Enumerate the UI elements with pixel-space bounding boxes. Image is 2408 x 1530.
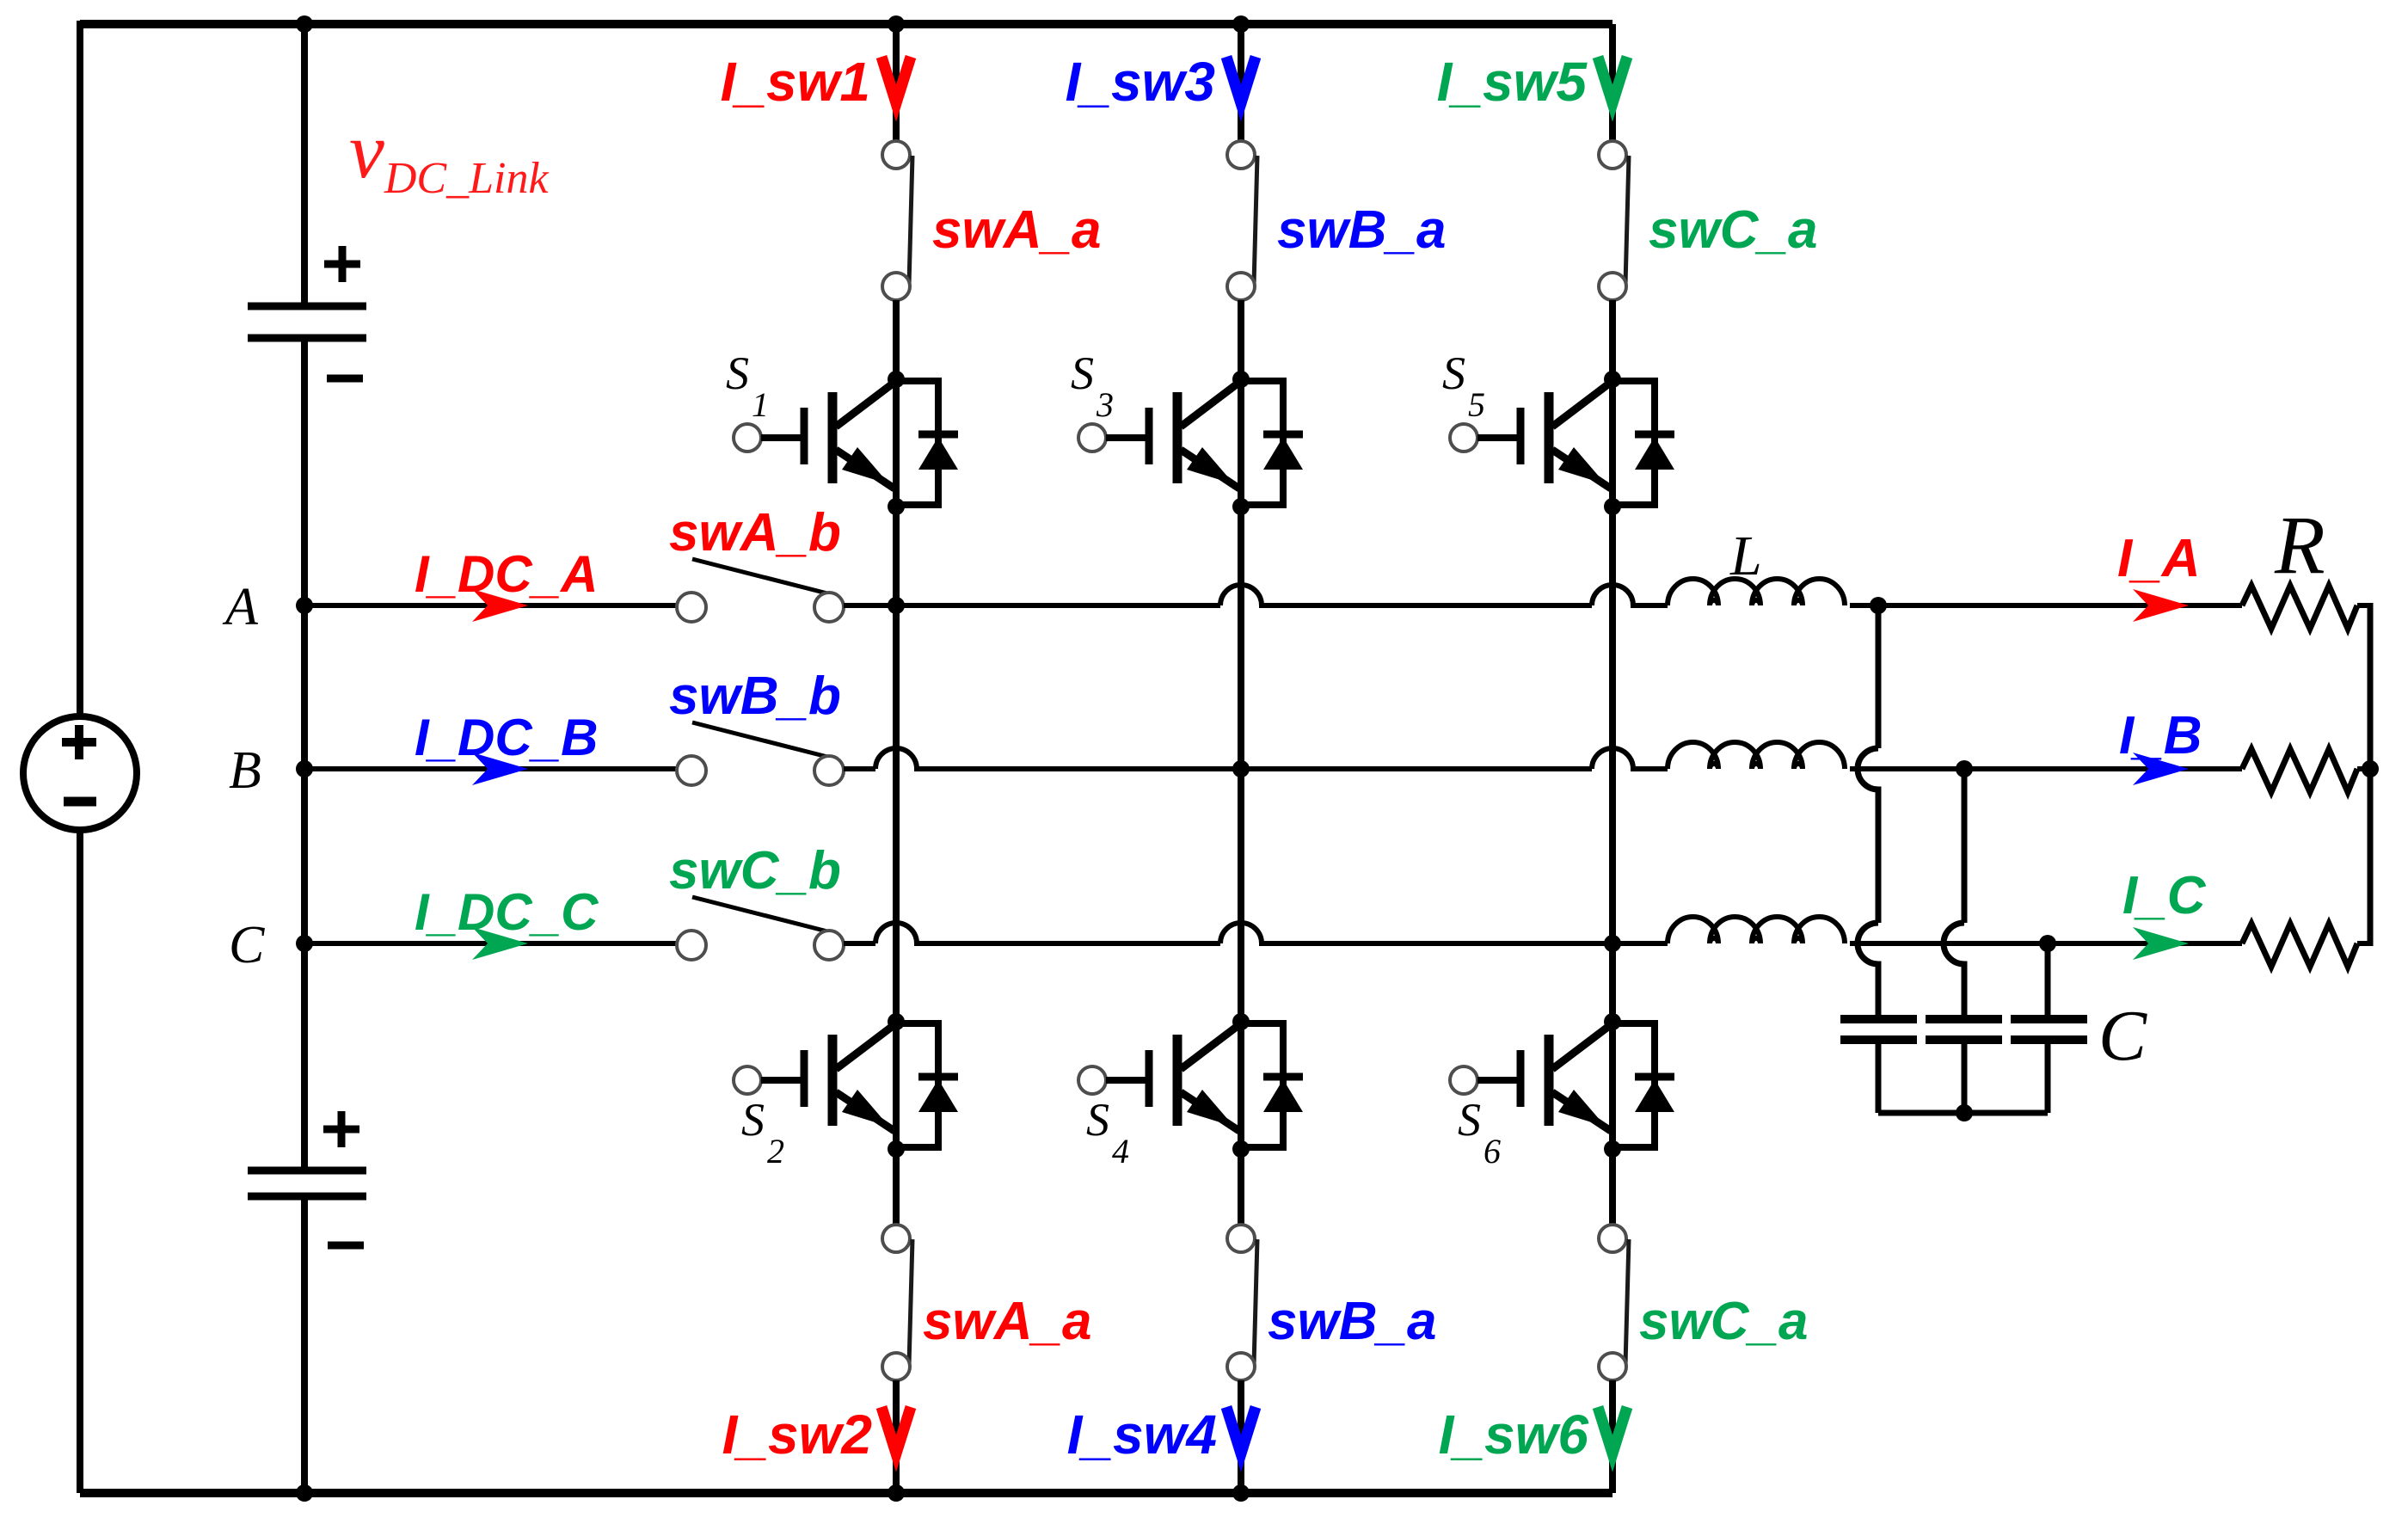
svg-text:swC_b: swC_b [669,841,841,900]
current arrow I_DC_C [472,927,528,960]
switch swC_b terminal 2 [814,931,844,960]
svg-text:swB_b: swB_b [669,667,841,726]
switch swB_a (top) terminal 2 [1227,273,1255,300]
current arrow I_sw5 [1598,57,1627,103]
svg-text:S: S [726,347,749,399]
switch swA_a (bottom) terminal 2 [882,1353,910,1380]
resistor R (phase C) [2242,924,2357,967]
wire phase B across leg1 (hop) to leg2 [844,748,1241,769]
svg-text:swC_a: swC_a [1649,200,1817,260]
wire phase A to leg1 [844,603,896,608]
svg-text:I_sw4: I_sw4 [1067,1404,1217,1465]
wire phase B inductor to tap [1850,766,1964,771]
svg-text:L: L [1729,525,1762,587]
node right bus phase B [2362,760,2379,777]
svg-text:R: R [2274,499,2325,591]
switch swA_b terminal 2 [814,593,844,622]
wire leg3 lower IGBT to switch [1609,1149,1616,1225]
wire DC-link bus upper segment [301,21,308,303]
node C on DC-link bus [296,935,313,952]
capacitor C (phase A) [1840,1015,1917,1023]
resistor R (phase A) [2242,586,2357,629]
wire cap branch A (hops over rows B and C) [1858,605,1878,1019]
wire leg3 switch to IGBT [1609,300,1616,379]
switch swC_a (top) terminal 1 [1599,141,1626,169]
voltage source V1 [23,716,137,830]
wire phase A inductor to tap [1850,603,1878,608]
node capacitor tie [1956,1104,1973,1121]
switch swA_a (top) terminal 1 [882,141,910,169]
wire resistor B to right bus [2357,766,2370,771]
wire cap branch B (hops over row C) [1944,769,1964,1019]
current arrow I_sw4 [1226,1407,1256,1453]
wire phase C inductor to tap [1850,941,2048,946]
switch swB_a (bottom) blade [1254,1239,1257,1365]
node top bus leg3 [0,0,1,1]
resistor R (phase B) [2242,749,2357,792]
svg-text:3: 3 [1096,385,1114,424]
wire leg2 IGBT to node B [1238,507,1244,769]
svg-text:swB_a: swB_a [1277,200,1446,260]
svg-text:C: C [229,916,265,974]
current arrow I_A [2133,589,2189,622]
wire leg2 from top bus to switch [1238,24,1244,141]
wire phase C from bus to swC_b [304,941,677,946]
node phase C filter tap [2039,935,2056,952]
svg-text:6: 6 [1483,1132,1501,1171]
capacitor C (phase C) [2011,1015,2087,1023]
wire phase C tap to resistor [2048,941,2242,946]
switch swB_a (bottom) terminal 2 [1227,1353,1255,1380]
svg-text:S: S [741,1094,765,1146]
switch swC_b terminal 1 [677,931,706,960]
wire bottom DC bus [80,1489,1612,1497]
wire cap B to tie bus [1962,1040,1968,1113]
svg-text:I_DC_B: I_DC_B [415,709,598,766]
svg-text:swA_a: swA_a [932,200,1101,260]
wire leg2 node B to lower IGBT [1238,769,1244,1022]
wire cap A to tie bus [1876,1040,1882,1113]
node bottom bus leg1 [888,1484,905,1502]
svg-text:I_sw5: I_sw5 [1437,51,1588,113]
wire resistor A to right bus [2357,603,2370,608]
capacitor C_dc1 (upper DC-link cap) [248,303,366,310]
svg-text:2: 2 [767,1132,784,1171]
switch swC_a (bottom) blade [1625,1239,1629,1365]
wire leg1 from top bus to switch [893,24,900,141]
svg-text:I_sw3: I_sw3 [1066,51,1215,113]
switch swB_a (top) blade [1254,156,1257,285]
switch swB_b blade [692,722,831,758]
transistor S4 (IGBT with freewheel diode D4) [1078,1013,1303,1158]
node phase B filter tap [1956,760,1973,777]
switch swA_a (bottom) blade [909,1239,912,1365]
svg-text:I_A: I_A [2117,529,2200,588]
wire capacitor tie bus [1878,1110,2048,1116]
svg-text:S: S [1442,347,1465,399]
current arrow I_DC_A [472,589,528,622]
switch swB_b terminal 1 [677,756,706,785]
switch swB_b terminal 2 [814,756,844,785]
wire top DC bus [80,20,1612,28]
current arrow I_sw1 [881,57,911,103]
svg-text:S: S [1458,1094,1481,1146]
wire DC-link bus middle segment [301,341,308,1167]
node top bus leg1 [888,15,905,33]
wire leg2 switch to bottom bus [1238,1380,1244,1493]
inductor L (phase C) [1668,917,1845,943]
wire leg2 switch to IGBT [1238,300,1244,379]
node A on DC-link bus [296,597,313,614]
transistor S2 (IGBT with freewheel diode D2) [734,1013,958,1158]
transistor S3 (IGBT with freewheel diode D3) [1078,371,1303,515]
node leg3 phase C [1604,935,1621,952]
switch swA_b blade [692,559,831,594]
svg-text:I_sw6: I_sw6 [1439,1404,1589,1465]
wire left bus upper segment [77,21,83,716]
wire phase C across leg1 and leg2 (hops) to leg3 [844,923,1612,943]
wire leg2 lower IGBT to switch [1238,1149,1244,1225]
wire phase B tap to resistor [1964,766,2242,771]
switch swA_a (top) blade [909,156,912,285]
svg-text:I_sw1: I_sw1 [721,51,870,113]
svg-text:S: S [1086,1094,1109,1146]
switch swA_a (bottom) terminal 1 [882,1225,910,1252]
wire cap C to tie bus [2045,1040,2051,1113]
wire resistor C to right bus [2357,941,2370,946]
node phase A filter tap [1870,597,1887,614]
svg-text:I_DC_A: I_DC_A [415,545,598,603]
transistor S5 (IGBT with freewheel diode D5) [1450,371,1674,515]
wire leg1 IGBT to node A [893,507,900,605]
wire leg3 switch to bottom bus [1609,1380,1616,1493]
wire leg3 IGBT to node C [1609,507,1616,943]
capacitor C_dc2 (lower DC-link cap) [248,1167,366,1175]
wire phase B leg2 to inductor (hops over leg3) [1241,748,1668,769]
svg-text:swA_a: swA_a [923,1292,1091,1351]
svg-text:swB_a: swB_a [1268,1292,1436,1351]
svg-text:I_DC_C: I_DC_C [415,883,599,941]
switch swA_b terminal 1 [677,593,706,622]
wire leg3 node C to lower IGBT [1609,943,1616,1022]
wire leg1 switch to IGBT [893,300,900,379]
wire cap branch C [2045,943,2051,1019]
node bottom bus / DC-link bus [296,1484,313,1502]
current arrow I_sw2 [881,1407,911,1453]
svg-text:5: 5 [1468,385,1485,424]
transistor S6 (IGBT with freewheel diode D6) [1450,1013,1674,1158]
switch swC_a (bottom) terminal 2 [1599,1353,1626,1380]
wire phase C leg3 to inductor [1612,941,1668,946]
node bottom bus leg2 [1232,1484,1250,1502]
svg-text:swA_b: swA_b [669,503,841,562]
svg-text:S: S [1071,347,1094,399]
wire DC-link bus lower segment [301,1200,308,1493]
svg-text:I_C: I_C [2122,866,2207,925]
svg-text:I_sw2: I_sw2 [722,1404,872,1465]
current arrow I_sw3 [1226,57,1256,103]
node B on DC-link bus [296,760,313,777]
wire phase A tap to resistor [1878,603,2242,608]
current arrow I_B [2133,753,2189,785]
wire leg3 from top bus to switch [1609,24,1616,141]
node top bus / DC-link bus [296,15,313,33]
wire leg1 lower IGBT to switch [893,1149,900,1225]
wire left bus lower segment [77,830,83,1493]
node leg2 phase B [1232,760,1250,777]
wire phase A from bus to swA_b [304,603,677,608]
capacitor C (phase B) [1926,1015,2002,1023]
svg-text:1: 1 [752,385,769,424]
svg-text:B: B [229,741,261,800]
current arrow I_sw6 [1598,1407,1627,1453]
svg-text:A: A [222,578,259,636]
svg-text:4: 4 [1112,1132,1129,1171]
svg-text:I_B: I_B [2119,706,2202,765]
inductor L (phase A) [1668,579,1845,605]
wire phase B from bus to swB_b [304,766,677,771]
current arrow I_DC_B [472,753,528,785]
wire right load bus [2368,603,2374,946]
switch swA_a (top) terminal 2 [882,273,910,300]
switch swC_a (bottom) terminal 1 [1599,1225,1626,1252]
inductor L (phase B) [1668,742,1845,769]
wire leg1 switch to bottom bus [893,1380,900,1493]
current arrow I_C [2133,927,2189,960]
wire phase A across legs (hops over leg2 and leg3) [896,585,1668,605]
switch swB_a (top) terminal 1 [1227,141,1255,169]
node leg1 phase A [888,597,905,614]
switch swC_a (top) terminal 2 [1599,273,1626,300]
node top bus leg2 [1232,15,1250,33]
transistor S1 (IGBT with freewheel diode D1) [734,371,958,515]
svg-text:swC_a: swC_a [1639,1292,1808,1351]
svg-text:C: C [2098,996,2147,1076]
switch swC_a (top) blade [1625,156,1629,285]
switch swB_a (bottom) terminal 1 [1227,1225,1255,1252]
switch swC_b blade [692,897,831,932]
wire leg1 node A to lower IGBT [893,605,900,1022]
